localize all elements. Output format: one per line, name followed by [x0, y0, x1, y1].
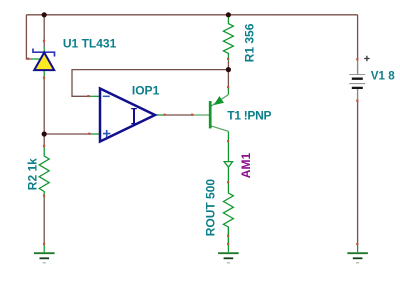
svg-text:IOP1: IOP1	[132, 83, 160, 97]
svg-text:ROUT 500: ROUT 500	[204, 179, 218, 237]
svg-text:U1 TL431: U1 TL431	[63, 36, 117, 50]
svg-text:V1 8: V1 8	[371, 69, 395, 82]
svg-text:R2 1k: R2 1k	[25, 158, 39, 190]
svg-text:AM1: AM1	[239, 153, 253, 179]
svg-text:T1 !PNP: T1 !PNP	[227, 108, 271, 122]
svg-text:R1 356: R1 356	[243, 23, 257, 62]
